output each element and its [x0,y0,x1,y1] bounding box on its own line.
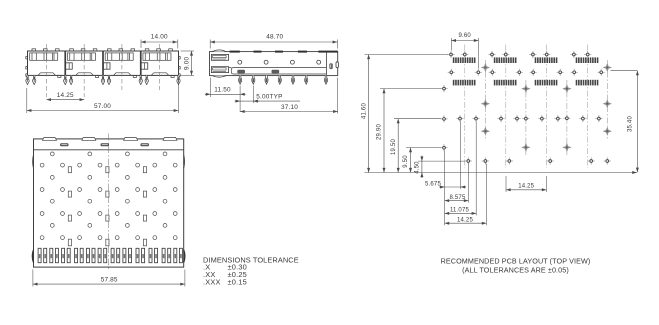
dimension 19.50 (pcb left) [391,119,441,173]
dimension 14.25 (pcb middle) [506,176,546,192]
svg-text:8.575: 8.575 [449,195,465,201]
svg-text:DIMENSIONS TOLERANCE: DIMENSIONS TOLERANCE [203,256,299,265]
front view: latch openings ports 2-4 [66,63,148,69]
dimension 14.25 (front bottom) [46,92,84,101]
pcb layout: hole column centerlines [485,60,607,155]
pcb layout: row1 holes [447,51,591,58]
side view: cage body outline [210,52,338,76]
side view: front EMI slot upper [211,54,228,60]
front view: right edge side tabs [179,57,181,77]
svg-text:57.85: 57.85 [101,276,118,283]
top view: side latch bulges [32,155,184,262]
side view: rear cap [326,52,338,76]
dimension 37.10 (side bottom) [240,78,338,114]
front view: cage body outline [28,51,179,75]
dimension 5.675 (pcb bottom) [425,181,466,188]
pcb layout: row2 holes [448,69,605,76]
svg-text:±0.15: ±0.15 [228,278,247,287]
pcb layout: bottom row holes [465,157,611,164]
dimension 57.85 (top view bottom) [33,270,185,287]
side view: front EMI slot lower [211,67,228,73]
top view: rear pin slots [38,248,182,262]
svg-text:5.675: 5.675 [425,181,441,187]
front view: port centerlines [46,44,159,97]
pcb layout: bottom reference baseline [365,171,637,174]
pcb layout: SMT pad rows [453,57,599,85]
tolerance note text [203,256,299,287]
front view: press-fit pins [26,75,180,84]
dimension 35.40 (pcb right) [611,71,639,173]
svg-text:14.00: 14.00 [151,34,168,41]
svg-text:35.40: 35.40 [627,116,633,132]
svg-text:9.00: 9.00 [184,57,191,70]
side view: vent circles [238,60,321,64]
front view: bottom flange bumps [38,73,169,76]
dimension 11.075 (pcb bottom) [445,208,477,215]
dimension 8.575 (pcb bottom) [445,195,469,202]
svg-text:(ALL TOLERANCES ARE ±0.05): (ALL TOLERANCES ARE ±0.05) [462,266,569,275]
svg-text:9.60: 9.60 [458,33,471,39]
dimension 29.90 (pcb left) [377,89,441,173]
side view: bottom flange strip [229,68,327,74]
front view: top EMI tabs [32,49,172,51]
svg-text:.XXX: .XXX [203,278,221,287]
dimension 14.00 (front top) [141,34,178,49]
front view: port divider walls [65,51,141,75]
front view: bottom solder tabs [58,75,174,77]
side view: top edge thick segments [230,51,338,53]
dimension 41.60 (pcb left) [361,55,448,173]
top view: vent hole grid [40,152,177,240]
svg-text:RECOMMENDED PCB LAYOUT (TOP VI: RECOMMENDED PCB LAYOUT (TOP VIEW) [441,257,591,266]
side view: press-fit pins [239,76,328,85]
svg-text:37.10: 37.10 [281,104,298,111]
svg-text:19.50: 19.50 [391,139,397,155]
pcb layout caption [441,257,591,275]
svg-text:14.25: 14.25 [57,92,74,99]
top view: cage plate outline [34,139,184,267]
side view: top front dome [212,50,226,52]
svg-text:57.00: 57.00 [94,103,111,110]
pcb layout: mid row holes [440,85,602,151]
side view: solder foot pads [237,70,279,74]
side view: bottom front dome [212,76,226,78]
top view: front band dark slots [60,143,149,146]
front view: top slot rows [30,53,171,60]
svg-text:48.70: 48.70 [266,34,283,41]
svg-text:14.25: 14.25 [457,218,473,224]
pcb layout: press-fit stars [481,63,612,152]
top view: vertical centerline [108,134,110,272]
dimension 9.00 (front right) [181,51,195,75]
svg-text:5.00TYP: 5.00TYP [256,94,282,101]
top view: front band line [34,149,184,151]
dimension 48.70 (side top) [210,34,338,49]
svg-text:4.50: 4.50 [415,161,421,174]
svg-text:11.50: 11.50 [214,87,231,94]
pcb layout: port centerlines [465,45,588,169]
dimension 57.00 (front bottom) [27,78,179,114]
front view: left edge side tabs [26,57,28,77]
svg-text:11.075: 11.075 [450,208,470,214]
dimension 9.60 (pcb top) [451,33,478,69]
dimension 5.00TYP (side) [235,86,300,104]
svg-text:14.25: 14.25 [518,183,534,189]
svg-text:29.90: 29.90 [377,124,383,140]
dimension 14.25 (pcb bottom) [445,218,487,225]
svg-text:41.60: 41.60 [361,103,367,119]
dimension 9.50 (pcb left) [403,148,441,173]
dimension 11.50 (side) [205,78,246,113]
pcb layout: bottom dim extension columns [445,122,487,226]
top view: small louver slots [68,167,146,246]
dimension 4.50 (pcb left) [415,156,465,178]
top view: front edge spring slots [43,138,178,141]
svg-text:9.50: 9.50 [403,155,409,168]
